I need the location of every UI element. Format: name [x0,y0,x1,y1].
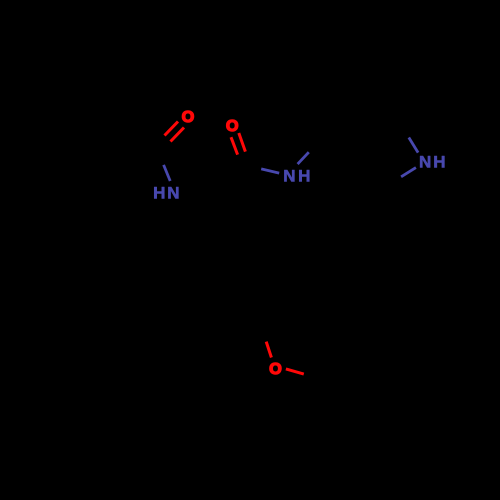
svg-text:O: O [226,118,238,135]
svg-text:H: H [298,167,310,186]
svg-text:O: O [269,361,281,378]
svg-text:H: H [153,183,165,202]
svg-text:N: N [419,152,431,171]
svg-text:H: H [433,152,445,171]
svg-text:N: N [167,183,179,202]
svg-text:N: N [283,167,295,186]
svg-text:O: O [182,109,194,126]
